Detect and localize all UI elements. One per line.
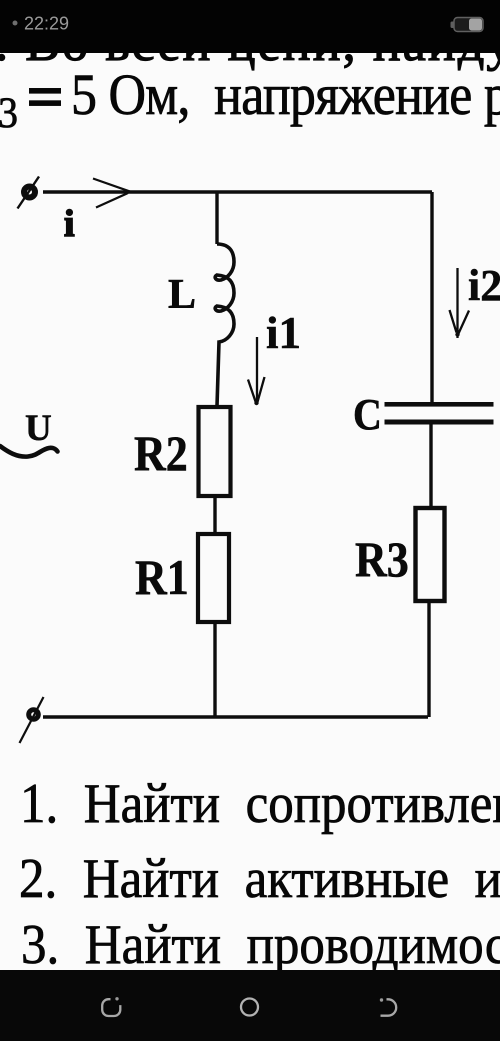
svg-text:i: i	[64, 203, 75, 245]
wire capacitor to R3	[429, 425, 432, 509]
svg-text:i2: i2	[468, 261, 500, 310]
terminal T1 (top-left)	[24, 187, 35, 198]
wire branch node down to inductor	[215, 192, 218, 244]
svg-text:22:29: 22:29	[24, 14, 69, 34]
wire R2 to R1	[213, 496, 216, 534]
circuit labels	[25, 203, 500, 606]
status bar (black)	[0, 0, 500, 53]
resistor R1 body	[198, 534, 229, 622]
svg-text:3: 3	[0, 90, 18, 138]
arrow i1 (branch current)	[248, 337, 265, 404]
wire right vertical (top to capacitor)	[430, 192, 433, 402]
wire R3 down	[427, 601, 430, 717]
navigation bar (black)	[0, 970, 500, 1041]
terminal T1 slash	[18, 177, 40, 209]
svg-text:R3: R3	[355, 533, 409, 588]
notification dot	[13, 21, 18, 26]
svg-text:1. Найти сопротивлени: 1. Найти сопротивлени	[20, 772, 500, 835]
equation line: 3 = 5 Ом, напряжение	[0, 62, 500, 137]
nav home icon (circle)	[241, 999, 258, 1016]
terminal T2 slash	[20, 697, 44, 743]
svg-text:U: U	[25, 408, 52, 449]
battery icon	[454, 18, 483, 32]
svg-text:R1: R1	[135, 551, 189, 606]
svg-text:L: L	[168, 272, 196, 318]
resistor R3 body	[416, 508, 445, 601]
wire R1 down to bottom	[213, 622, 216, 717]
svg-text:C: C	[353, 390, 382, 440]
capacitor C bottom plate	[385, 420, 494, 425]
arrow i2 (right branch current)	[450, 268, 470, 338]
inductor L (three loops)	[215, 244, 234, 406]
task list text	[19, 772, 500, 976]
svg-text:5 Ом, напряжение ра: 5 Ом, напряжение ра	[71, 62, 500, 126]
svg-text:3. Найти проводимос: 3. Найти проводимос	[21, 913, 500, 976]
svg-text:i1: i1	[266, 308, 301, 358]
svg-text:R2: R2	[134, 427, 188, 482]
AC source squiggle (sine)	[0, 446, 58, 457]
wire top horizontal	[43, 190, 432, 193]
capacitor C top plate	[385, 402, 494, 407]
nav recents icon (open rounded bracket with dot)	[381, 999, 397, 1015]
nav back icon (open rounded square with dot)	[102, 999, 120, 1016]
svg-text:2. Найти активные и: 2. Найти активные и	[19, 847, 500, 910]
current arrow i (open arrowhead on top wire)	[93, 179, 130, 208]
terminal T2 (bottom-left)	[29, 710, 39, 720]
resistor R2 body	[199, 407, 231, 496]
wire bottom horizontal	[43, 715, 428, 718]
